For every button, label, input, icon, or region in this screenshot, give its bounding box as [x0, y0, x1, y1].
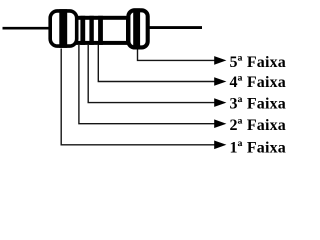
arrowhead row 5 (1a Faixa)	[214, 141, 226, 150]
resistor right end cap	[128, 10, 147, 47]
band 2	[80, 16, 85, 45]
resistor left end cap	[50, 11, 76, 46]
svg-text:2ª Faixa: 2ª Faixa	[230, 117, 286, 134]
svg-text:4ª Faixa: 4ª Faixa	[230, 74, 286, 91]
callout wire band5 to 5a Faixa	[138, 50, 217, 61]
callout wire band2 to 2a Faixa	[79, 45, 216, 124]
callout wire band3 to 3a Faixa	[88, 45, 216, 103]
arrowhead row 4 (2a Faixa)	[214, 119, 226, 128]
arrowhead row 1 (5a Faixa)	[214, 56, 226, 65]
band 5 (inside right cap)	[133, 8, 140, 49]
band 3	[89, 16, 93, 45]
arrowhead row 2 (4a Faixa)	[214, 77, 226, 86]
callout wire band4 to 4a Faixa	[98, 45, 216, 82]
wire left lead	[3, 27, 51, 30]
band 4	[98, 16, 103, 45]
wire right lead	[148, 26, 202, 29]
band 1 (inside left cap)	[59, 9, 67, 48]
svg-text:5ª Faixa: 5ª Faixa	[230, 54, 286, 71]
resistor body	[72, 18, 128, 43]
svg-text:1ª Faixa: 1ª Faixa	[230, 139, 286, 156]
callout wire band1 to 1a Faixa	[61, 49, 216, 145]
svg-text:3ª Faixa: 3ª Faixa	[230, 96, 286, 113]
arrowhead row 3 (3a Faixa)	[214, 98, 226, 107]
